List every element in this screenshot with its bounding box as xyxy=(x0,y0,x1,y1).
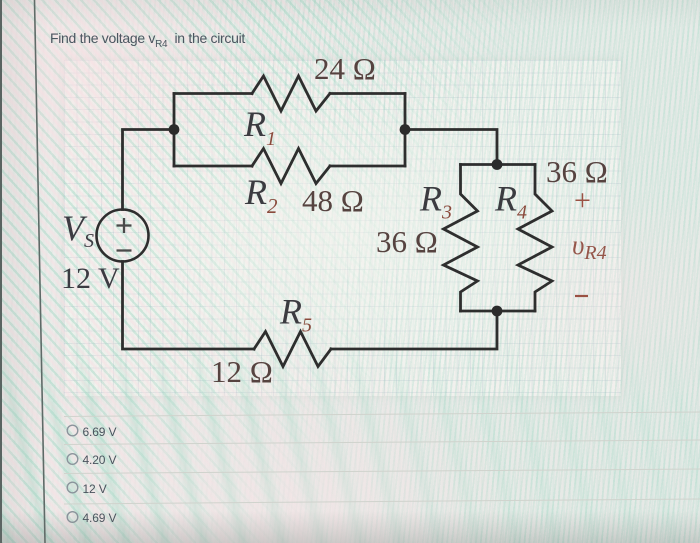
option text 4.69 V xyxy=(83,511,117,525)
option separator lines xyxy=(64,412,700,417)
radio option 2 xyxy=(67,454,78,465)
resistor R4 xyxy=(518,165,552,312)
left dark border xyxy=(0,0,2,543)
resistor R2 xyxy=(252,149,330,184)
VS plus sign xyxy=(117,218,132,233)
wire R2 row xyxy=(174,165,252,168)
VS minus sign xyxy=(117,249,132,251)
page edge slanted line xyxy=(35,0,46,543)
radio option 4 xyxy=(67,512,78,523)
wire parallel bottom bar xyxy=(461,310,536,313)
radio option 1 xyxy=(67,425,78,436)
option text 6.69 V xyxy=(83,425,117,439)
wire source bottom xyxy=(123,262,255,350)
wire node A to source xyxy=(123,130,175,210)
question text xyxy=(50,30,245,50)
wire parallel top bar xyxy=(461,163,536,166)
wire xyxy=(330,92,405,95)
node dot parallel top xyxy=(492,159,503,170)
node dot left xyxy=(169,124,180,135)
node dot parallel bottom xyxy=(492,306,503,317)
graph paper sheet xyxy=(64,60,621,396)
node dot right xyxy=(400,124,411,135)
wire top-left vertical (R1/R2 loop left side) xyxy=(173,94,176,167)
radio option 3 xyxy=(67,482,78,493)
wire bottom right xyxy=(331,311,497,349)
label minus polarity xyxy=(575,295,588,297)
voltage source VS circle xyxy=(97,210,149,262)
option text 4.20 V xyxy=(83,453,117,467)
wire right vertical of loop xyxy=(404,94,407,167)
wire xyxy=(330,165,405,168)
resistor R5 xyxy=(254,332,331,367)
resistor R1 xyxy=(252,76,330,111)
option text 12 V xyxy=(83,482,107,496)
wire node B to parallel block xyxy=(405,130,497,165)
wire top (with R1) xyxy=(174,92,252,95)
resistor R3 xyxy=(444,165,478,312)
